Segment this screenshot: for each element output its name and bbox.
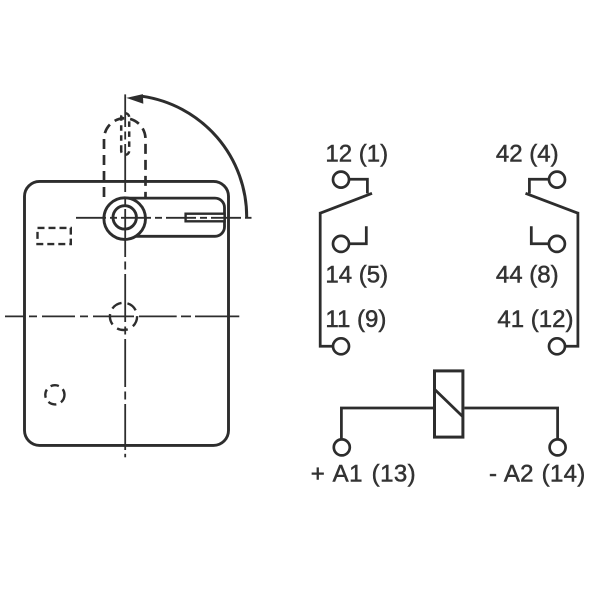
arm tip slot	[186, 214, 225, 222]
svg-text:41 (12): 41 (12)	[497, 306, 573, 333]
svg-text:11 (9): 11 (9)	[325, 306, 386, 333]
lower mounting hole (small dashed circle)	[45, 385, 64, 404]
terminal 41 circle	[549, 338, 565, 354]
hub inner circle	[113, 206, 136, 229]
coil diagonal	[435, 389, 463, 417]
svg-text:+ A1 (13): + A1 (13)	[311, 461, 416, 488]
center hole horizontal centerline	[5, 315, 239, 317]
NC contact blade left	[320, 193, 372, 213]
svg-text:- A2 (14): - A2 (14)	[489, 461, 586, 488]
lever alternate position (dashed stadium)	[104, 118, 146, 197]
vertical centerline	[124, 94, 126, 450]
mounting hole (dashed rectangle)	[38, 228, 71, 244]
lever arm (horizontal position)	[124, 198, 225, 236]
terminal 42 circle	[549, 172, 565, 188]
arc arrowhead	[126, 94, 143, 104]
terminal 11 circle	[333, 338, 349, 354]
terminal 12 circle	[333, 172, 349, 188]
wire A1 to coil	[341, 408, 433, 439]
NC contact blade right	[526, 193, 578, 213]
lever roller slot dashed	[121, 113, 129, 155]
hub outer circle	[104, 198, 146, 240]
terminal 44 circle	[549, 236, 565, 252]
terminal A1 circle	[334, 439, 350, 455]
svg-text:42 (4): 42 (4)	[496, 140, 559, 167]
svg-text:44 (8): 44 (8)	[496, 261, 559, 288]
right rail to terminal 41	[564, 212, 578, 346]
wire from 12 to pivot	[349, 179, 368, 193]
relay coil K1	[435, 371, 463, 437]
svg-text:14 (5): 14 (5)	[325, 261, 388, 288]
NO stub 14	[349, 226, 367, 243]
wire from 42 to pivot	[529, 179, 549, 193]
svg-text:12 (1): 12 (1)	[325, 140, 388, 167]
center hole (dashed circle)	[110, 303, 137, 330]
switch body outline	[25, 181, 229, 445]
NO stub 44	[531, 226, 549, 243]
hub horizontal centerline	[76, 217, 252, 219]
terminal A2 circle	[550, 439, 566, 455]
wire coil to A2	[464, 408, 557, 439]
rotation arc	[143, 96, 247, 217]
terminal 14 circle	[333, 236, 349, 252]
left rail to terminal 11	[320, 212, 334, 346]
